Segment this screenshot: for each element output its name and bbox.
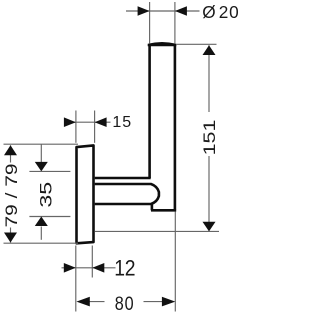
- extension line above tube right: [174, 2, 176, 43]
- tube top dome: [148, 42, 177, 46]
- tube right edge: [174, 45, 177, 210]
- bottom left extension line: [75, 246, 77, 312]
- arm outline with rounded nose: [95, 184, 159, 204]
- arrow left of 12 dim: [64, 263, 76, 273]
- 12 right extension line: [91, 246, 93, 278]
- arrow right of 80 dim: [162, 297, 175, 307]
- arm to tube bottom connector: [151, 204, 154, 211]
- arrow right of 12 dim: [92, 263, 104, 273]
- arrow right of diameter dim: [175, 6, 187, 16]
- baseline reference: [95, 230, 219, 232]
- extension line 15 right: [94, 111, 96, 143]
- dimension line 80 left part: [88, 301, 105, 303]
- tube left edge: [148, 45, 151, 178]
- arrow bottom of 151: [203, 222, 216, 232]
- arrow bottom of 79/79: [4, 233, 17, 243]
- 35 upper arrow: [35, 162, 48, 172]
- arrow top of 151: [203, 45, 216, 55]
- 35 upper tick: [29, 170, 70, 172]
- 151 top extension line: [176, 43, 216, 45]
- dimension line 79/79: [10, 145, 12, 242]
- dimension line 80 right part: [144, 301, 167, 303]
- tube bottom edge: [151, 209, 176, 212]
- svg-text:35: 35: [37, 182, 55, 208]
- plate bottom extension line: [4, 242, 79, 244]
- svg-text:12: 12: [114, 256, 135, 280]
- svg-text:Ø: Ø: [202, 2, 215, 22]
- svg-text:15: 15: [112, 114, 132, 131]
- dimension line 15: [64, 121, 111, 123]
- arrow left of diameter dim: [138, 6, 150, 16]
- wall plate: [77, 145, 94, 243]
- arrow top of 79/79: [4, 145, 17, 155]
- arrow right of 15 dim: [95, 117, 107, 127]
- 35 upper leader line: [40, 144, 42, 162]
- dimension line 12: [62, 267, 116, 269]
- dimension line 151: [208, 45, 210, 231]
- 35 lower leader line: [40, 227, 42, 240]
- label 79/79 background: [3, 163, 19, 228]
- label 151 background: [200, 112, 216, 156]
- svg-text:20: 20: [219, 2, 240, 22]
- extension line 15 left: [75, 111, 77, 143]
- svg-text:79 / 79: 79 / 79: [3, 164, 22, 228]
- dimension line diameter 20: [126, 10, 200, 12]
- tube right bottom extension line: [174, 212, 176, 312]
- arm top edge: [95, 177, 151, 180]
- 35 lower arrow: [35, 217, 48, 227]
- 35 lower tick: [29, 216, 70, 218]
- svg-text:151: 151: [201, 120, 219, 156]
- extension line above tube left: [149, 2, 151, 43]
- svg-text:80: 80: [115, 292, 135, 314]
- arrow left of 80 dim: [76, 297, 89, 307]
- arrow left of 15 dim: [64, 117, 76, 127]
- plate top extension line: [4, 143, 79, 145]
